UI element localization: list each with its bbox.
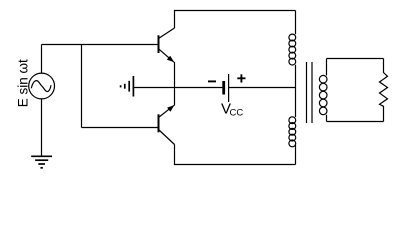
wire Q1 collector up and top rail xyxy=(175,11,296,29)
wire source bottom xyxy=(41,99,43,156)
transformer T1 core xyxy=(307,62,313,123)
wire common emitter vertical xyxy=(174,62,176,106)
battery Vcc xyxy=(224,74,229,102)
wire branch down from node xyxy=(81,45,83,128)
source V1 sine xyxy=(31,81,51,92)
transformer T1 primary wire segments xyxy=(295,11,297,165)
wire ground to battery (crosses emitter line) xyxy=(134,87,223,89)
ground G1 (below source) xyxy=(31,156,52,168)
wire source top xyxy=(41,45,43,74)
wire secondary top to load xyxy=(327,58,384,60)
transformer T1 primary coil upper xyxy=(289,34,296,65)
transformer T1 secondary coil xyxy=(319,75,327,114)
wire secondary bottom to load xyxy=(327,121,384,123)
battery minus label xyxy=(208,80,216,82)
transistor Q2 xyxy=(159,105,175,144)
svg-text:E sin ωt: E sin ωt xyxy=(16,59,31,107)
wire top horizontal to Q1 base xyxy=(42,44,158,46)
transformer T1 primary coil lower xyxy=(289,117,296,147)
svg-text:VCC: VCC xyxy=(221,101,243,119)
transistor Q1 xyxy=(159,28,175,62)
battery plus label xyxy=(237,74,245,82)
wire battery to center tap xyxy=(229,87,296,89)
resistor RL (load) xyxy=(380,59,388,122)
wire Q2 collector down and bottom rail xyxy=(175,145,296,165)
ground G2 (middle, rotated left) xyxy=(121,76,134,97)
wire branch to Q2 base xyxy=(82,127,158,129)
transformer T1 secondary wire segments xyxy=(326,59,328,122)
source V1 xyxy=(29,73,55,99)
